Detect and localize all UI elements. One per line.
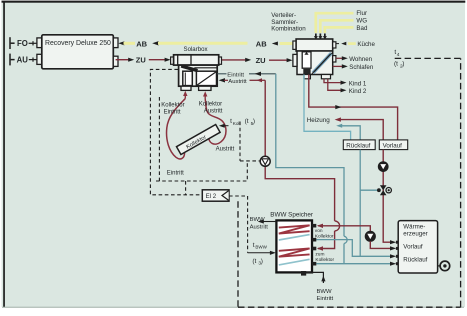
svg-text:Kollektor: Kollektor — [199, 101, 222, 107]
svg-text:Eintritt: Eintritt — [317, 296, 334, 302]
solar red pipe bridge — [335, 221, 340, 231]
svg-text:Bad: Bad — [356, 25, 368, 32]
Wohnen duct arrow — [336, 57, 343, 59]
Kind2 duct — [328, 79, 341, 91]
tank to pump2 line — [318, 226, 370, 232]
svg-text:4: 4 — [397, 52, 400, 58]
dashed building boundary left — [237, 201, 239, 307]
Kueche duct arrow — [336, 43, 339, 45]
svg-text:ZU: ZU — [136, 56, 146, 65]
svg-text:erzeuger: erzeuger — [403, 230, 427, 237]
solarbox top box divider 2 — [190, 55, 192, 65]
svg-text:Austritt: Austritt — [216, 147, 235, 153]
dashed building boundary top — [394, 57, 461, 59]
heating pump P3 — [379, 162, 388, 171]
BWW Eintritt pipe — [306, 272, 323, 283]
svg-text:Austritt: Austritt — [204, 108, 223, 114]
teal drop from unit — [304, 75, 351, 140]
svg-text:Wohnen: Wohnen — [349, 56, 372, 63]
intake arrows into unit top — [314, 34, 327, 40]
dashed building boundary bottom — [238, 306, 461, 308]
AB duct yellow to distributor — [280, 42, 293, 45]
Ruecklauf box — [343, 140, 375, 150]
Austritt wire — [250, 79, 266, 81]
exhaust duct Flur — [316, 13, 354, 33]
solarbox bottom tab left — [181, 86, 191, 90]
boiler gauge circle — [438, 265, 441, 267]
recovery unit right tab ZU — [113, 56, 118, 66]
solarbox damper flap — [181, 66, 197, 71]
svg-text:Kollektor: Kollektor — [315, 257, 334, 263]
recovery unit Recovery Deluxe 250 — [42, 35, 114, 69]
collector eintritt arrow up — [184, 95, 186, 99]
tank upper coil cyan — [279, 235, 310, 240]
boiler Waermeerzeuger — [398, 221, 437, 273]
svg-text:Kind 1: Kind 1 — [349, 80, 367, 87]
ZU arrowhead at distributor — [287, 58, 293, 62]
recovery unit left tab AU — [37, 54, 42, 64]
svg-text:Eintritt: Eintritt — [167, 171, 184, 177]
solarbox Eintritt line — [217, 73, 226, 75]
AU terminal symbol — [10, 54, 15, 66]
frame left border — [3, 2, 5, 308]
dashed solarbox to left drop — [150, 69, 202, 194]
dashed tKol drop — [239, 122, 241, 161]
exhaust duct Bad — [325, 27, 354, 33]
ZU duct to solarbox — [149, 59, 166, 61]
Kind1 duct — [324, 79, 341, 83]
AB arrowhead at recovery — [118, 41, 124, 45]
svg-text:AB: AB — [136, 39, 147, 48]
solarbox lower box — [179, 65, 218, 86]
distributor inner column — [302, 52, 311, 68]
pump P2 — [365, 231, 375, 241]
svg-text:Austritt: Austritt — [250, 225, 269, 231]
distributor left tab ZU — [293, 54, 297, 66]
svg-text:BWW Speicher: BWW Speicher — [270, 211, 313, 218]
exhaust duct WG — [320, 20, 353, 33]
dashed el2 to tank sensor — [229, 196, 248, 253]
tank upper coil red — [279, 225, 310, 233]
distributor lower body — [297, 51, 333, 75]
svg-text:(t: (t — [394, 61, 398, 68]
FO terminal symbol — [10, 37, 15, 49]
svg-text:BWW: BWW — [250, 217, 265, 223]
solar red supply pipe down through pump — [264, 80, 266, 156]
svg-text:Küche: Küche — [357, 41, 375, 48]
dashed link to pump — [240, 160, 260, 162]
distributor bottom tab right — [321, 75, 330, 79]
tank lower coil red — [279, 249, 310, 257]
solar pump P1 — [260, 156, 270, 166]
tKol sensor arrow — [224, 125, 229, 127]
frame bottom edge — [2, 307, 464, 308]
dashed el2 riser — [185, 181, 187, 195]
distributor heat exchanger diagonal — [313, 53, 331, 73]
Austritt arrow into box — [219, 78, 225, 82]
svg-text:Rücklauf: Rücklauf — [403, 256, 427, 263]
frame top border — [2, 1, 466, 3]
teal main return riser — [359, 150, 361, 257]
teal bottom header to boiler — [316, 263, 390, 265]
ZU arrowhead into solarbox — [165, 58, 171, 62]
teal link to mixing valve — [360, 189, 379, 191]
ZU arrowhead 1 — [128, 58, 134, 62]
svg-text:BWW: BWW — [255, 245, 267, 250]
svg-text:Rücklauf: Rücklauf — [346, 142, 370, 149]
distributor right tab Wohnen — [333, 56, 336, 62]
svg-text:Vorlauf: Vorlauf — [383, 142, 403, 149]
Eintritt wire with arrow — [249, 73, 276, 75]
svg-text:AU: AU — [17, 56, 29, 65]
AB arrowhead at distributor — [272, 42, 278, 46]
Schlafen duct arrow — [333, 65, 343, 67]
svg-text:Eintritt: Eintritt — [227, 72, 244, 78]
svg-text:Solarbox: Solarbox — [184, 46, 208, 53]
svg-text:): ) — [253, 118, 255, 125]
svg-text:Kombination: Kombination — [271, 26, 306, 33]
solar red pipe into tank zum Kollektor — [318, 231, 335, 249]
Vorlauf box — [379, 140, 407, 150]
svg-text:): ) — [402, 61, 404, 68]
svg-text:Heizung: Heizung — [307, 117, 331, 124]
teal pipe bridge — [344, 236, 347, 243]
svg-text:Austritt: Austritt — [228, 79, 247, 85]
svg-text:Recovery Deluxe 250: Recovery Deluxe 250 — [45, 40, 111, 47]
svg-text:WG: WG — [356, 18, 367, 25]
solarbox heat exchanger diagonal — [197, 72, 216, 85]
tBWW sensor arrow — [248, 252, 271, 254]
collector austritt arrow up — [204, 95, 206, 99]
ZU duct from recovery — [116, 59, 129, 61]
AU wire to unit — [29, 58, 37, 62]
pump2 to boiler — [370, 241, 390, 248]
solarbox left ext tab — [171, 57, 174, 64]
boiler connection arrows — [390, 240, 396, 244]
svg-text:Kollektor: Kollektor — [315, 233, 334, 239]
ZU arrowhead 2 — [245, 58, 251, 62]
dashed collector left drop — [158, 97, 160, 181]
distributor top box — [296, 39, 333, 51]
svg-text:Kol: Kol — [233, 121, 240, 126]
controller El 2 — [202, 190, 229, 201]
svg-text:Kind 2: Kind 2 — [349, 88, 367, 95]
distributor inner triangle — [304, 52, 308, 55]
recovery unit right tab AB — [113, 38, 118, 48]
red drop from unit to Vorlauf header — [309, 75, 398, 140]
svg-text:BWW: BWW — [317, 289, 332, 295]
solarbox inner left chamber — [183, 71, 193, 85]
teal return pipe solarbox to tank zone — [276, 74, 344, 236]
tank teal out — [316, 240, 390, 257]
distributor left tab AB — [293, 41, 296, 49]
dashed building boundary right — [460, 58, 462, 307]
ZU duct after solarbox — [221, 59, 245, 61]
solarbox HX top line — [194, 67, 217, 69]
distributor dark connector — [303, 69, 310, 75]
teal pipe lower segment — [343, 244, 345, 264]
tank nub von Kollektor red — [312, 224, 316, 228]
distributor right tab Kueche — [333, 42, 336, 48]
recovery unit left tab FO — [37, 38, 42, 48]
dashed collector bottom run — [156, 161, 247, 181]
tank lower coil cyan — [279, 259, 310, 265]
solarbox inner left line — [184, 73, 186, 86]
BWW Austritt arrow — [263, 221, 276, 223]
red supply riser from Vorlauf — [383, 150, 390, 243]
tank bottom nub — [301, 271, 306, 276]
svg-text:Vorlauf: Vorlauf — [403, 243, 423, 250]
svg-text:AB: AB — [256, 40, 267, 49]
svg-text:): ) — [261, 258, 263, 265]
collector austritt pipe — [205, 99, 226, 144]
svg-text:ZU: ZU — [256, 56, 266, 65]
tank nub zum Kollektor red — [312, 247, 316, 251]
AB duct segment yellow — [124, 42, 136, 45]
FO wire to unit — [29, 41, 37, 45]
tank nub teal upper — [312, 238, 316, 242]
solarbox right ext tab — [219, 57, 222, 64]
boiler connection nubs — [396, 241, 399, 244]
svg-text:(t: (t — [245, 118, 249, 125]
solarbox top box divider 1 — [177, 55, 179, 65]
svg-text:(t: (t — [252, 258, 256, 265]
ZU duct to distributor — [269, 59, 287, 61]
solarbox bottom tab right — [199, 86, 211, 90]
collector panel — [177, 125, 221, 155]
Heizung supply arrow — [335, 117, 341, 121]
distributor bottom tab left — [304, 75, 310, 79]
svg-text:Eintritt: Eintritt — [164, 110, 181, 116]
tank nub teal lower — [312, 262, 316, 266]
AB arrowhead mid — [152, 41, 158, 45]
solarbox top air box — [174, 55, 219, 65]
svg-text:Kollektor: Kollektor — [161, 103, 184, 109]
solarbox heat exchanger box — [196, 71, 216, 85]
Heizung return arrow — [336, 124, 342, 128]
svg-text:Schlafen: Schlafen — [349, 64, 374, 71]
svg-text:FO: FO — [17, 39, 28, 48]
arrow on coil line — [335, 105, 341, 109]
mixing valve — [380, 185, 387, 190]
svg-text:El 2: El 2 — [206, 193, 217, 200]
tank body — [276, 220, 312, 272]
collector eintritt pipe — [167, 99, 186, 159]
AB duct long yellow segment — [158, 42, 248, 45]
svg-text:Flur: Flur — [356, 10, 367, 17]
